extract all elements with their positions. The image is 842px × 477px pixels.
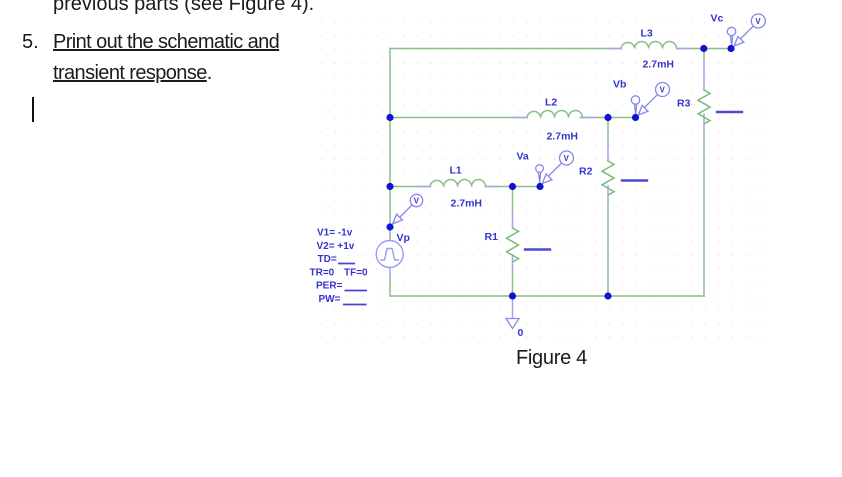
resistor R3 bbox=[698, 90, 710, 124]
pin stubs L3 bbox=[608, 48, 691, 50]
node dot Vc bbox=[727, 45, 734, 52]
document line: transient response. bbox=[53, 62, 212, 85]
node dot R2 bottom bbox=[604, 292, 611, 299]
svg-text:0: 0 bbox=[518, 327, 524, 339]
svg-text:V: V bbox=[660, 86, 666, 95]
node dot R2 top bbox=[604, 114, 611, 121]
source Vp circle bbox=[376, 241, 403, 268]
svg-text:Va: Va bbox=[517, 151, 529, 163]
inductor L2 bbox=[527, 111, 583, 118]
node dot R3 top bbox=[700, 45, 707, 52]
wire middle row L2 bbox=[390, 117, 636, 119]
node dot bus-Vp bbox=[386, 223, 393, 230]
svg-text:V2= +1v: V2= +1v bbox=[317, 241, 355, 252]
svg-text:L3: L3 bbox=[641, 28, 653, 40]
svg-text:2.7mH: 2.7mH bbox=[451, 198, 483, 210]
svg-text:Vb: Vb bbox=[613, 79, 626, 91]
param TD underscore bbox=[338, 263, 355, 265]
node dot R1 bottom bbox=[509, 292, 516, 299]
svg-text:V1= -1v: V1= -1v bbox=[317, 228, 353, 239]
wire R2 branch bbox=[607, 118, 609, 297]
wire R1 branch bbox=[512, 187, 514, 297]
list number 5. bbox=[22, 31, 39, 54]
svg-text:TD=: TD= bbox=[318, 254, 337, 265]
svg-text:Vp: Vp bbox=[397, 232, 410, 244]
svg-text:Vc: Vc bbox=[711, 13, 724, 25]
svg-text:2.7mH: 2.7mH bbox=[547, 131, 579, 143]
value dash R2 bbox=[622, 179, 647, 181]
wire lower row L1 bbox=[390, 186, 540, 188]
svg-text:L1: L1 bbox=[450, 165, 462, 177]
probe Vc bbox=[727, 14, 765, 46]
node dot bus-L2 bbox=[386, 114, 393, 121]
probe Va bbox=[536, 151, 574, 184]
node dot Vb bbox=[632, 114, 639, 121]
value dash R1 bbox=[525, 248, 550, 250]
wire top row bbox=[390, 48, 731, 50]
svg-text:2.7mH: 2.7mH bbox=[643, 59, 675, 71]
svg-text:V: V bbox=[564, 154, 570, 163]
pin stubs Vp source bbox=[389, 237, 391, 277]
wire bottom bbox=[390, 277, 704, 296]
grid dots bbox=[315, 16, 765, 342]
document line: previous parts (see Figure 4). (cut off at top) bbox=[53, 0, 314, 16]
svg-text:TR=0: TR=0 bbox=[310, 268, 335, 279]
inductor L3 bbox=[621, 42, 677, 49]
svg-text:PER=: PER= bbox=[316, 281, 343, 292]
svg-text:R1: R1 bbox=[485, 231, 499, 243]
svg-text:V: V bbox=[414, 197, 420, 206]
resistor R1 bbox=[507, 228, 519, 262]
svg-text:R2: R2 bbox=[579, 166, 593, 178]
probe Vp marker bbox=[393, 194, 423, 224]
value dash R3 bbox=[717, 111, 742, 113]
svg-text:PW=: PW= bbox=[319, 294, 341, 305]
pin stubs L2 bbox=[514, 117, 594, 119]
pin stubs L1 bbox=[417, 186, 499, 188]
wire left bus bbox=[389, 49, 391, 238]
node dot Va bbox=[536, 183, 543, 190]
svg-text:L2: L2 bbox=[545, 97, 557, 109]
pin stubs R3 bbox=[703, 60, 705, 129]
figure caption bbox=[516, 347, 587, 370]
resistor R2 bbox=[602, 161, 614, 195]
svg-text:V: V bbox=[755, 17, 761, 26]
inductor L1 bbox=[430, 180, 486, 187]
param PW underscore bbox=[343, 304, 367, 306]
document line: Print out the schematic and bbox=[53, 31, 279, 54]
svg-text:R3: R3 bbox=[677, 98, 691, 110]
source Vp pulse glyph bbox=[381, 249, 398, 261]
text cursor bbox=[32, 97, 34, 122]
node dot R1 top bbox=[509, 183, 516, 190]
node dot bus-L1 bbox=[386, 183, 393, 190]
ground bbox=[512, 296, 514, 318]
param PER underscore bbox=[345, 290, 368, 292]
probe Vb bbox=[631, 83, 669, 116]
svg-text:TF=0: TF=0 bbox=[344, 268, 368, 279]
wire R3 branch bbox=[703, 49, 705, 297]
pin stubs R1 bbox=[512, 213, 514, 270]
pin stubs R2 bbox=[607, 146, 609, 201]
